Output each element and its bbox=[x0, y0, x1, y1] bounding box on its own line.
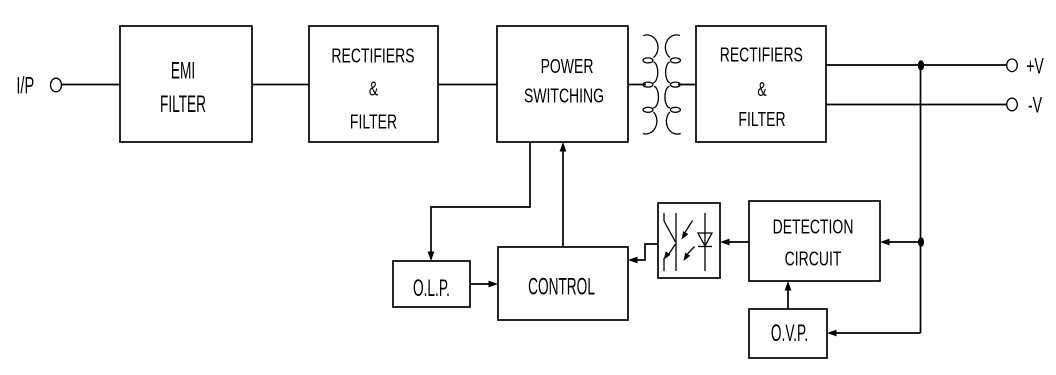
svg-text:POWER: POWER bbox=[541, 55, 594, 78]
svg-text:CIRCUIT: CIRCUIT bbox=[785, 247, 842, 270]
svg-text:&: & bbox=[369, 77, 379, 100]
svg-text:SWITCHING: SWITCHING bbox=[524, 84, 604, 107]
svg-text:EMI: EMI bbox=[171, 57, 195, 84]
svg-text:FILTER: FILTER bbox=[160, 91, 206, 118]
svg-text:FILTER: FILTER bbox=[738, 107, 785, 130]
svg-text:CONTROL: CONTROL bbox=[528, 273, 595, 300]
svg-text:+V: +V bbox=[1026, 53, 1044, 78]
svg-text:DETECTION: DETECTION bbox=[773, 215, 854, 238]
svg-text:RECTIFIERS: RECTIFIERS bbox=[331, 44, 414, 67]
svg-text:-V: -V bbox=[1028, 92, 1043, 117]
svg-text:RECTIFIERS: RECTIFIERS bbox=[720, 43, 803, 66]
svg-text:&: & bbox=[757, 77, 767, 100]
svg-text:FILTER: FILTER bbox=[350, 110, 397, 133]
svg-text:O.V.P.: O.V.P. bbox=[771, 320, 808, 347]
svg-text:O.L.P.: O.L.P. bbox=[413, 275, 450, 302]
svg-text:I/P: I/P bbox=[16, 73, 34, 100]
